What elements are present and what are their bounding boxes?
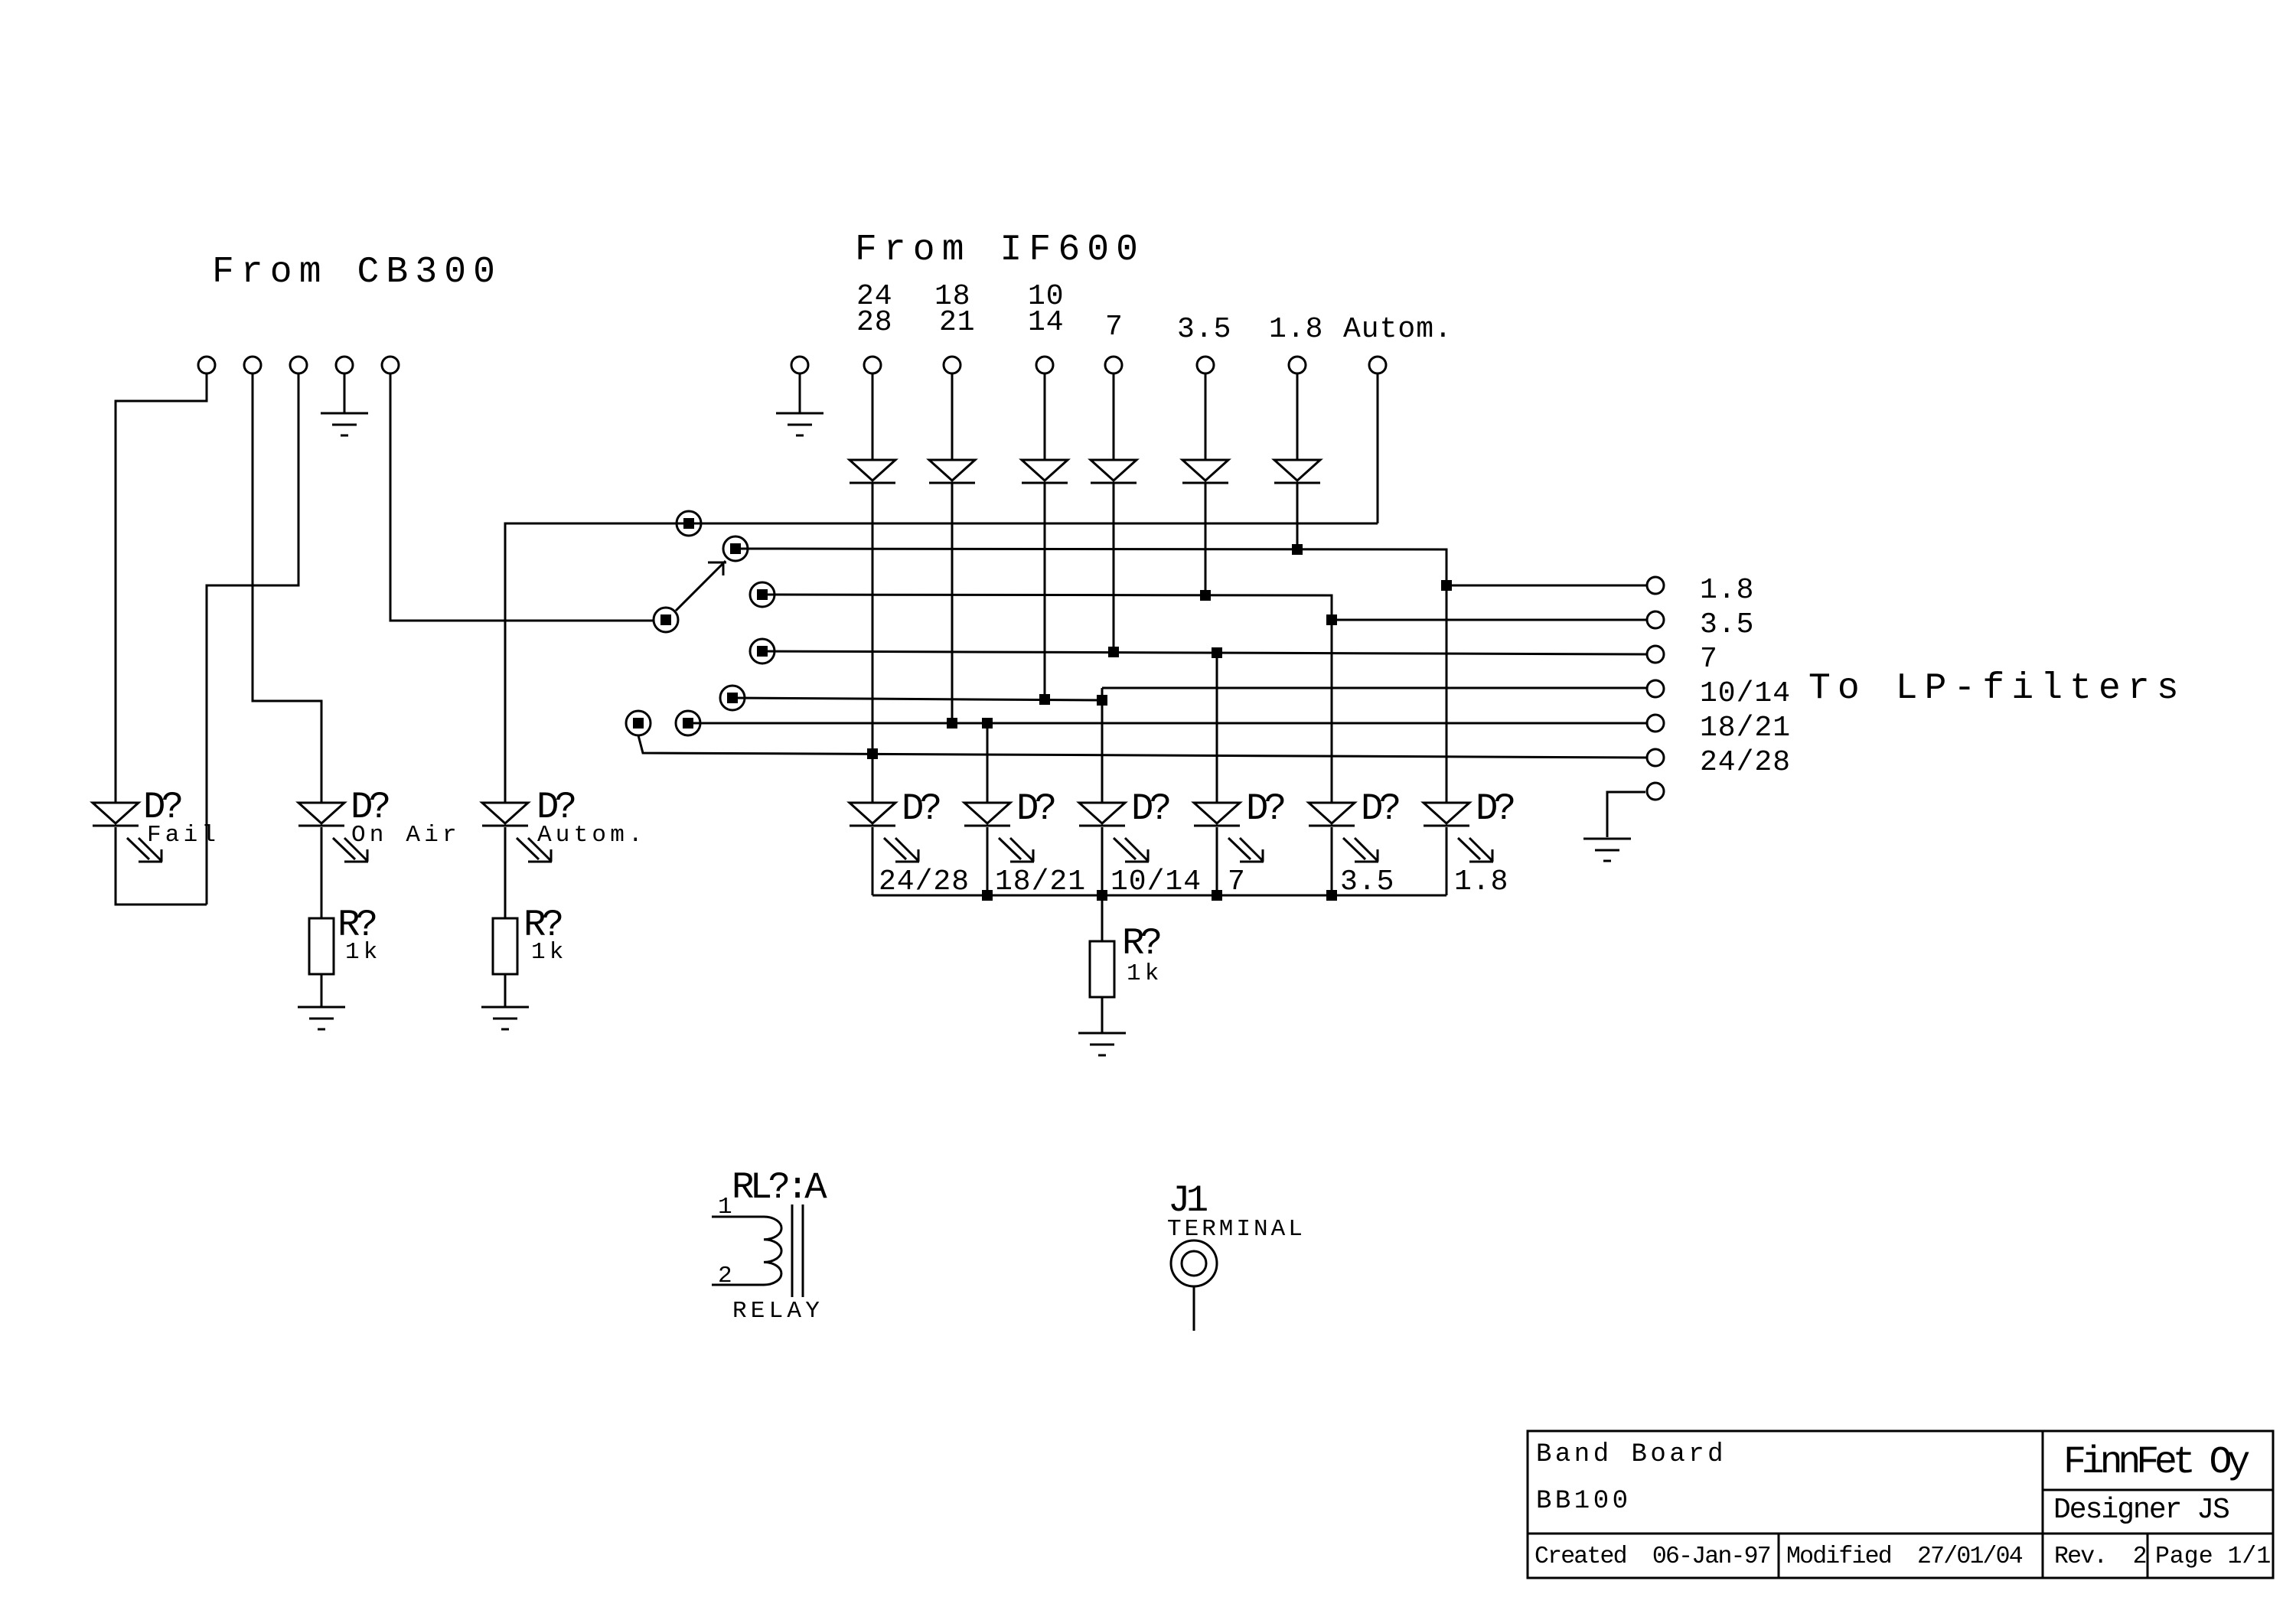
wire 10/14 column to LED — [1101, 688, 1104, 803]
LED D? On Air — [298, 803, 344, 826]
wire LED 24/28 cathode — [872, 827, 874, 895]
switch wiper arrow — [676, 561, 726, 611]
wire R? On Air to ground — [321, 974, 323, 1007]
LED D? Autom. — [482, 803, 528, 826]
svg-text:D?: D? — [1016, 787, 1055, 830]
svg-text:1.8: 1.8 — [1454, 865, 1508, 898]
resistor R? 1k common — [1090, 941, 1114, 997]
wire 7 LED column — [1216, 653, 1218, 803]
wire 3.5 LED column — [1331, 620, 1333, 803]
LED D? Fail arrows — [127, 838, 162, 862]
svg-text:D?: D? — [1131, 787, 1169, 830]
svg-text:D?: D? — [1246, 787, 1284, 830]
svg-text:1k: 1k — [531, 939, 568, 966]
diode D? 3.5 input — [1182, 460, 1228, 483]
LED D? 24/28 arrows — [884, 838, 919, 862]
diode D? 18/21 input — [929, 460, 975, 483]
wire 3.5 column — [1205, 483, 1207, 595]
connector pin CB300-3 — [290, 357, 307, 373]
wire R? Autom. to ground — [504, 974, 507, 1007]
wire D? Autom. cathode — [504, 827, 507, 918]
LED D? 7 arrows — [1228, 838, 1264, 862]
svg-text:To LP-filters: To LP-filters — [1808, 668, 2186, 709]
wire 10/14 row to output — [1102, 687, 1647, 689]
wire IF600 ground pin — [799, 373, 801, 413]
svg-text:BB100: BB100 — [1536, 1487, 1632, 1516]
wire IF600 10/14 pin to diode — [1044, 373, 1046, 460]
diode D? 10/14 input — [1022, 460, 1068, 483]
wire relay pin 2 — [712, 1284, 764, 1286]
switch contact 18/21 row — [676, 711, 700, 735]
connector pin LP-filter 1.8 — [1647, 577, 1664, 594]
wire 18/21 row to output — [688, 722, 1647, 725]
wire Autom. column — [1377, 373, 1379, 523]
junction 18/21 row / LED column — [982, 718, 993, 729]
wire D? On Air cathode — [321, 827, 323, 918]
LED D? 10/14 arrows — [1114, 838, 1149, 862]
junction 3.5 output / LED column — [1326, 614, 1337, 625]
connector pin CB300-1 — [198, 357, 215, 373]
svg-text:1k: 1k — [345, 939, 382, 966]
connector pin CB300-4 — [336, 357, 353, 373]
ground On Air — [298, 1007, 345, 1029]
connector pin IF600 Autom. — [1369, 357, 1386, 373]
connector pin IF600 1.8 — [1289, 357, 1306, 373]
svg-text:Autom.: Autom. — [1343, 313, 1453, 346]
wire CB300 pin4 to ground — [344, 373, 346, 413]
LED D? Autom. arrows — [517, 838, 552, 862]
wire 3.5 row to output — [762, 595, 1647, 620]
svg-text:D?: D? — [1476, 787, 1514, 830]
wire 1.8 row to output — [735, 549, 1647, 585]
LED D? 1.8 — [1424, 803, 1469, 826]
wire 24/28 row to output — [638, 735, 1647, 758]
svg-text:Band Board: Band Board — [1536, 1440, 1727, 1469]
connector pin IF600 7 — [1105, 357, 1122, 373]
svg-text:RL?:A: RL?:A — [732, 1166, 827, 1209]
svg-text:28: 28 — [856, 306, 893, 339]
svg-text:10/14: 10/14 — [1700, 677, 1791, 710]
svg-text:Fail: Fail — [147, 822, 220, 849]
wire CB300 pin1 to D? Fail anode — [116, 373, 207, 803]
connector pin IF600 24/28 — [864, 357, 881, 373]
switch contact 1.8 row — [723, 536, 748, 561]
ground CB300 pin4 — [321, 413, 368, 435]
switch contact Autom. row — [677, 511, 701, 536]
svg-text:D?: D? — [1361, 787, 1399, 830]
wire D? Fail cathode loop — [116, 827, 207, 905]
LED D? Fail — [93, 803, 139, 826]
ground output — [1583, 839, 1631, 861]
junction 18/21 column / row — [947, 718, 957, 729]
svg-text:18/21: 18/21 — [1700, 712, 1791, 745]
resistor R? 1k On Air — [309, 918, 334, 974]
wire 24/28 column — [872, 483, 874, 803]
svg-text:FinnFet Oy: FinnFet Oy — [2063, 1441, 2249, 1485]
svg-text:14: 14 — [1028, 306, 1065, 339]
wire LED 10/14 cathode — [1101, 827, 1104, 895]
wire CB300 pin2 to D? On Air anode — [253, 373, 321, 803]
terminal J1 symbol — [1171, 1240, 1217, 1286]
wire LED 1.8 cathode — [1446, 827, 1448, 895]
svg-text:On Air: On Air — [351, 822, 461, 849]
LED D? 10/14 — [1079, 803, 1125, 826]
svg-text:1.8: 1.8 — [1269, 313, 1323, 346]
relay RL?:A coil — [764, 1217, 781, 1285]
junction 1.8 column / 1.8 row — [1292, 544, 1303, 555]
wire relay pin 1 — [712, 1216, 764, 1218]
wire 7 row to output — [762, 651, 1647, 654]
wire 18/21 column — [951, 483, 954, 723]
svg-text:Autom.: Autom. — [537, 822, 647, 849]
wire IF600 1.8 pin to diode — [1296, 373, 1299, 460]
connector pin IF600 3.5 — [1197, 357, 1214, 373]
svg-text:From CB300: From CB300 — [212, 252, 502, 293]
junction 24/28 column / row — [867, 748, 878, 759]
svg-text:1.8: 1.8 — [1700, 574, 1754, 607]
wire Autom. row to D? Autom. LED — [505, 523, 1378, 803]
title block frame — [1528, 1431, 2273, 1578]
LED D? 18/21 arrows — [999, 838, 1034, 862]
wire IF600 24/28 pin to diode — [872, 373, 874, 460]
svg-text:10/14: 10/14 — [1110, 865, 1202, 898]
connector pin CB300-5 — [382, 357, 399, 373]
LED D? 3.5 arrows — [1343, 838, 1378, 862]
junction LED bus x=1440 — [1097, 890, 1107, 901]
relay core bars — [792, 1204, 803, 1297]
junction 7 column / 7 row — [1108, 647, 1119, 657]
svg-text:R?: R? — [1122, 922, 1160, 965]
LED D? 3.5 — [1309, 803, 1355, 826]
svg-text:24/28: 24/28 — [1700, 746, 1791, 779]
wire LED 3.5 cathode — [1331, 827, 1333, 895]
svg-text:Created 06-Jan-97: Created 06-Jan-97 — [1534, 1543, 1770, 1570]
svg-text:TERMINAL: TERMINAL — [1167, 1216, 1306, 1243]
wire LED common bus — [872, 895, 1446, 897]
wire IF600 3.5 pin to diode — [1205, 373, 1207, 460]
svg-text:7: 7 — [1105, 311, 1124, 344]
connector pin LP-filter 18/21 — [1647, 715, 1664, 732]
svg-text:3.5: 3.5 — [1177, 313, 1231, 346]
wire output ground — [1607, 792, 1645, 837]
connector pin CB300-2 — [244, 357, 261, 373]
switch pole contact — [654, 608, 678, 632]
svg-text:3.5: 3.5 — [1340, 865, 1394, 898]
connector pin IF600 10/14 — [1036, 357, 1053, 373]
connector pin IF600 18/21 — [944, 357, 960, 373]
svg-text:24/28: 24/28 — [879, 865, 970, 898]
wire 7 column — [1113, 483, 1115, 652]
diode D? 24/28 input — [850, 460, 895, 483]
wire LED 7 cathode — [1216, 827, 1218, 895]
svg-text:From IF600: From IF600 — [855, 230, 1145, 271]
svg-text:1k: 1k — [1127, 960, 1163, 987]
wire CB300 pin5 to switch pole — [390, 373, 654, 621]
diode D? 7 input — [1091, 460, 1137, 483]
svg-text:Page 1/1: Page 1/1 — [2155, 1543, 2271, 1570]
wire 18/21 LED column — [987, 723, 989, 803]
ground R? common — [1078, 1033, 1126, 1055]
wire IF600 18/21 pin to diode — [951, 373, 954, 460]
wire 10/14 column — [1044, 483, 1046, 699]
svg-text:3.5: 3.5 — [1700, 608, 1754, 641]
LED D? 18/21 — [964, 803, 1010, 826]
diode D? 1.8 input — [1274, 460, 1320, 483]
LED D? 1.8 arrows — [1458, 838, 1493, 862]
LED D? 7 — [1194, 803, 1240, 826]
switch contact 10/14 row — [720, 686, 745, 710]
resistor R? 1k Autom. — [493, 918, 517, 974]
svg-text:18/21: 18/21 — [995, 865, 1086, 898]
svg-text:Rev. 2: Rev. 2 — [2054, 1543, 2146, 1570]
junction LED bus x=1590 — [1212, 890, 1222, 901]
connector pin IF600 ground — [791, 357, 808, 373]
svg-text:Designer JS: Designer JS — [2053, 1494, 2229, 1527]
junction LED bus x=1290 — [982, 890, 993, 901]
connector pin LP-filter 7 — [1647, 646, 1664, 663]
wire R? to ground — [1101, 997, 1104, 1033]
svg-text:Modified 27/01/04: Modified 27/01/04 — [1786, 1543, 2023, 1570]
connector pin output ground — [1647, 783, 1664, 800]
svg-text:RELAY: RELAY — [732, 1298, 823, 1325]
connector pin LP-filter 3.5 — [1647, 611, 1664, 628]
connector pin LP-filter 24/28 — [1647, 749, 1664, 766]
svg-text:7: 7 — [1700, 643, 1718, 676]
junction 1.8 output / LED column — [1441, 580, 1452, 591]
wire J1 — [1193, 1286, 1195, 1331]
junction 3.5 column / 3.5 row — [1200, 590, 1211, 601]
svg-text:21: 21 — [939, 306, 976, 339]
wire CB300 pin3 to D? Fail cathode net — [207, 373, 298, 905]
svg-text:D?: D? — [902, 787, 940, 830]
wire 1.8 column — [1296, 483, 1299, 549]
switch contact 3.5 row — [750, 582, 775, 607]
ground IF600 — [776, 413, 823, 435]
junction 10/14 row / LED column — [1097, 695, 1107, 706]
switch contact 24/28 row — [626, 711, 651, 735]
LED D? 24/28 — [850, 803, 895, 826]
wire bus to R? — [1101, 895, 1104, 941]
LED D? On Air arrows — [333, 838, 368, 862]
ground Autom. — [481, 1007, 529, 1029]
wire 1.8 LED column — [1446, 585, 1448, 803]
junction LED bus x=1740 — [1326, 890, 1337, 901]
wire LED 18/21 cathode — [987, 827, 989, 895]
wire IF600 7 pin to diode — [1113, 373, 1115, 460]
connector pin LP-filter 10/14 — [1647, 680, 1664, 697]
junction 7 row / LED column — [1212, 647, 1222, 658]
svg-text:7: 7 — [1228, 865, 1246, 898]
switch contact 7 row — [750, 639, 775, 663]
junction 10/14 column / row — [1039, 694, 1050, 705]
wire 10/14 row — [732, 698, 1102, 700]
